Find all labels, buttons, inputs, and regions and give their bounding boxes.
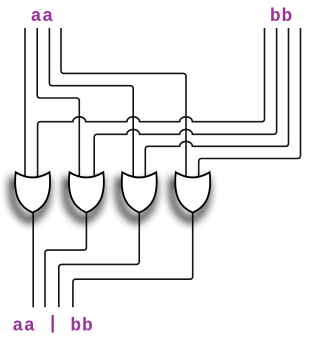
- wire q3 (or3 out to result bit2): [59, 211, 139, 308]
- wire q1 (or1 out to result bit0): [32, 211, 34, 308]
- svg-text:bb: bb: [270, 7, 293, 27]
- or-gate U3: [119, 180, 154, 220]
- or-gate U4: [172, 180, 207, 220]
- wire b1 (bb bit0 to or1 in B): [38, 28, 265, 179]
- or-gate U1: [12, 180, 47, 220]
- svg-text:aa | bb: aa | bb: [12, 315, 93, 337]
- wire q2 (or2 out to result bit1): [45, 211, 86, 308]
- or-gate U2: [66, 180, 101, 220]
- wire b4 (bb bit3 to or4 in B): [199, 28, 301, 179]
- svg-text:aa: aa: [31, 7, 54, 27]
- wire q4 (or4 out to result bit3): [73, 211, 193, 308]
- wire a3 (aa bit2 to or3 in A): [49, 28, 133, 179]
- wire a2 (aa bit1 to or2 in A): [37, 28, 79, 179]
- wire a1 (aa bit0 to or1 in A): [24, 28, 26, 179]
- wire a4 (aa bit3 to or4 in A): [61, 28, 186, 179]
- wire b2 (bb bit1 to or2 in B): [94, 28, 276, 179]
- wire b3 (bb bit2 to or3 in B): [145, 28, 288, 179]
